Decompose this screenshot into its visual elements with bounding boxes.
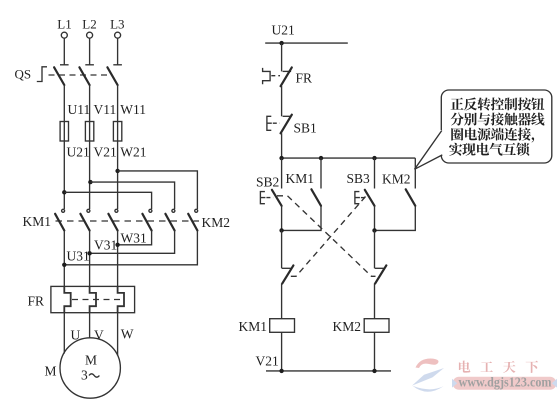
node W31 junction bbox=[115, 243, 119, 247]
wire KM1 pole 1 down bbox=[63, 231, 65, 287]
svg-text:KM2: KM2 bbox=[333, 319, 362, 334]
svg-text:SB2: SB2 bbox=[256, 175, 279, 190]
svg-text:M: M bbox=[45, 364, 57, 379]
wire KM1 pole 3 down bbox=[117, 231, 119, 287]
wire L1 to QS bbox=[63, 38, 65, 64]
fuse FU3 bbox=[117, 122, 119, 142]
svg-text:KM1: KM1 bbox=[23, 214, 52, 229]
wire SB1 to branch rail bbox=[281, 133, 283, 158]
switch QS pole 1 bbox=[60, 64, 69, 66]
contact KM2 auxiliary NO bbox=[406, 189, 416, 206]
watermark site name bbox=[459, 361, 470, 373]
wire U-phase to KM2 pole 1 bbox=[64, 192, 151, 209]
svg-text:V21: V21 bbox=[94, 145, 117, 160]
motor M 3-phase bbox=[60, 338, 120, 398]
thermal relay FR heater 2 bbox=[90, 286, 96, 312]
wire SB2 to node A bbox=[281, 206, 283, 231]
wire node B to NC contact bbox=[374, 230, 376, 268]
svg-text:QS: QS bbox=[15, 67, 32, 82]
wire FR to motor W bbox=[117, 313, 119, 356]
thermal relay FR heater 1 bbox=[64, 286, 70, 312]
node A bbox=[279, 228, 283, 232]
wire FR to motor V bbox=[89, 313, 91, 338]
contactor KM2 pole 1 bbox=[149, 209, 152, 212]
svg-text:V21: V21 bbox=[256, 354, 279, 369]
wire coil KM2 to V21 rail bbox=[374, 332, 376, 371]
node W-phase branch bbox=[115, 169, 119, 173]
svg-text:KM1: KM1 bbox=[239, 319, 268, 334]
wire KM1 pole 2 down bbox=[89, 231, 91, 287]
wire KM2 pole 2 to V node bbox=[90, 231, 175, 254]
watermark url pill bbox=[452, 375, 557, 390]
wire rail to FR contact bbox=[281, 43, 283, 71]
svg-text:W11: W11 bbox=[120, 102, 146, 117]
wire coil KM1 to V21 rail bbox=[281, 332, 283, 371]
contactor KM2 pole 3 bbox=[195, 209, 198, 212]
callout text bbox=[451, 98, 464, 110]
wire U-phase fuse to KM1 contact bbox=[63, 141, 65, 209]
wire FR to SB1 bbox=[281, 86, 283, 116]
wire KM1 aux to node A bbox=[282, 206, 321, 231]
svg-text:FR: FR bbox=[296, 71, 313, 86]
wire KM2 pole 3 to U node bbox=[64, 231, 197, 265]
thermal relay FR box bbox=[51, 286, 135, 312]
svg-text:W: W bbox=[121, 327, 134, 342]
contactor KM1 pole 2 bbox=[87, 209, 90, 212]
wire SB3 to node B bbox=[374, 206, 376, 231]
control branch rail bbox=[282, 157, 416, 159]
node coil KM1 return bbox=[279, 369, 283, 373]
wire NC to coil KM2 bbox=[374, 283, 376, 318]
svg-text:W31: W31 bbox=[121, 231, 147, 246]
svg-text:U31: U31 bbox=[67, 249, 90, 264]
wire node A to NC contact bbox=[281, 230, 283, 268]
svg-text:KM1: KM1 bbox=[286, 171, 315, 186]
control supply rail U21 bbox=[265, 42, 348, 44]
wire branch drops bbox=[282, 158, 416, 188]
node branch SB3 bbox=[372, 156, 376, 160]
contactor KM2 pole 2 bbox=[172, 209, 175, 212]
node B bbox=[372, 228, 376, 232]
thermal relay FR NC contact bbox=[263, 68, 271, 84]
mechanical link SB2 to NC (dashed) bbox=[277, 196, 376, 276]
wire L3 to QS bbox=[117, 38, 119, 64]
fuse FU1 bbox=[63, 122, 65, 142]
svg-text:V31: V31 bbox=[94, 238, 117, 253]
svg-text:V11: V11 bbox=[94, 102, 117, 117]
coil KM1 bbox=[270, 319, 295, 333]
node V31 junction bbox=[87, 251, 91, 255]
contact KM1 auxiliary NO bbox=[311, 189, 321, 206]
switch QS handle bbox=[37, 67, 47, 82]
svg-text:M: M bbox=[85, 353, 97, 368]
wire L2 to QS bbox=[89, 38, 91, 64]
wire KM2 pole 1 to W node bbox=[118, 231, 152, 245]
svg-text:3: 3 bbox=[81, 368, 88, 383]
thermal relay FR heater 3 bbox=[118, 286, 124, 312]
fuse FU2 bbox=[89, 122, 91, 142]
node U31 junction bbox=[62, 263, 66, 267]
svg-text:www.dgjs123.com: www.dgjs123.com bbox=[459, 375, 553, 390]
coil KM2 bbox=[364, 319, 389, 333]
wire FR to motor U bbox=[63, 313, 65, 354]
mechanical link SB3 to NC (dashed) bbox=[288, 197, 366, 277]
svg-text:KM2: KM2 bbox=[202, 215, 231, 230]
wire KM2 aux to node B bbox=[375, 206, 416, 231]
svg-text:W21: W21 bbox=[120, 145, 146, 160]
svg-text:L2: L2 bbox=[82, 17, 96, 32]
node V-phase branch bbox=[88, 180, 92, 184]
switch QS pole 2 bbox=[85, 64, 94, 66]
svg-text:SB3: SB3 bbox=[347, 171, 371, 186]
svg-text:U21: U21 bbox=[67, 145, 90, 160]
wire V-phase fuse to KM1 contact bbox=[89, 141, 91, 209]
svg-text:FR: FR bbox=[28, 294, 45, 309]
thermal relay heater dashed linkage bbox=[72, 299, 124, 301]
node U-phase branch bbox=[62, 190, 66, 194]
interlock NC contact (KM1 branch) bbox=[282, 267, 291, 269]
interlock NC contact (KM2 branch) bbox=[375, 267, 384, 269]
switch QS interlock dashed line bbox=[49, 74, 110, 76]
start button SB2 NO contact bbox=[260, 192, 265, 204]
svg-text:L1: L1 bbox=[57, 17, 71, 32]
wire NC to coil KM1 bbox=[281, 283, 283, 318]
node coil KM2 return bbox=[372, 369, 376, 373]
svg-text:KM2: KM2 bbox=[382, 172, 411, 187]
svg-text:U11: U11 bbox=[68, 102, 91, 117]
svg-text:U21: U21 bbox=[272, 23, 295, 38]
node branch KM1 bbox=[319, 156, 323, 160]
wire W-phase to KM2 pole 3 bbox=[118, 171, 198, 209]
callout pointer bbox=[415, 131, 443, 170]
start button SB3 NO contact bbox=[355, 192, 360, 204]
contactor KM1 pole 1 bbox=[62, 209, 65, 212]
node branch SB2 bbox=[279, 156, 283, 160]
svg-text:L3: L3 bbox=[110, 17, 124, 32]
contactor poles dashed linkage bbox=[56, 220, 200, 222]
contactor KM1 pole 3 bbox=[115, 209, 118, 212]
node rail drop bbox=[279, 41, 283, 45]
watermark logo bbox=[412, 358, 444, 391]
stop button SB1 NC contact bbox=[267, 116, 272, 130]
annotation callout bubble bbox=[441, 90, 552, 163]
svg-text:SB1: SB1 bbox=[294, 121, 317, 136]
control return rail V21 bbox=[266, 370, 391, 372]
wire W-phase fuse to KM1 contact bbox=[117, 141, 119, 209]
wire V-phase to KM2 pole 2 bbox=[90, 182, 174, 209]
switch QS pole 3 bbox=[113, 64, 122, 66]
